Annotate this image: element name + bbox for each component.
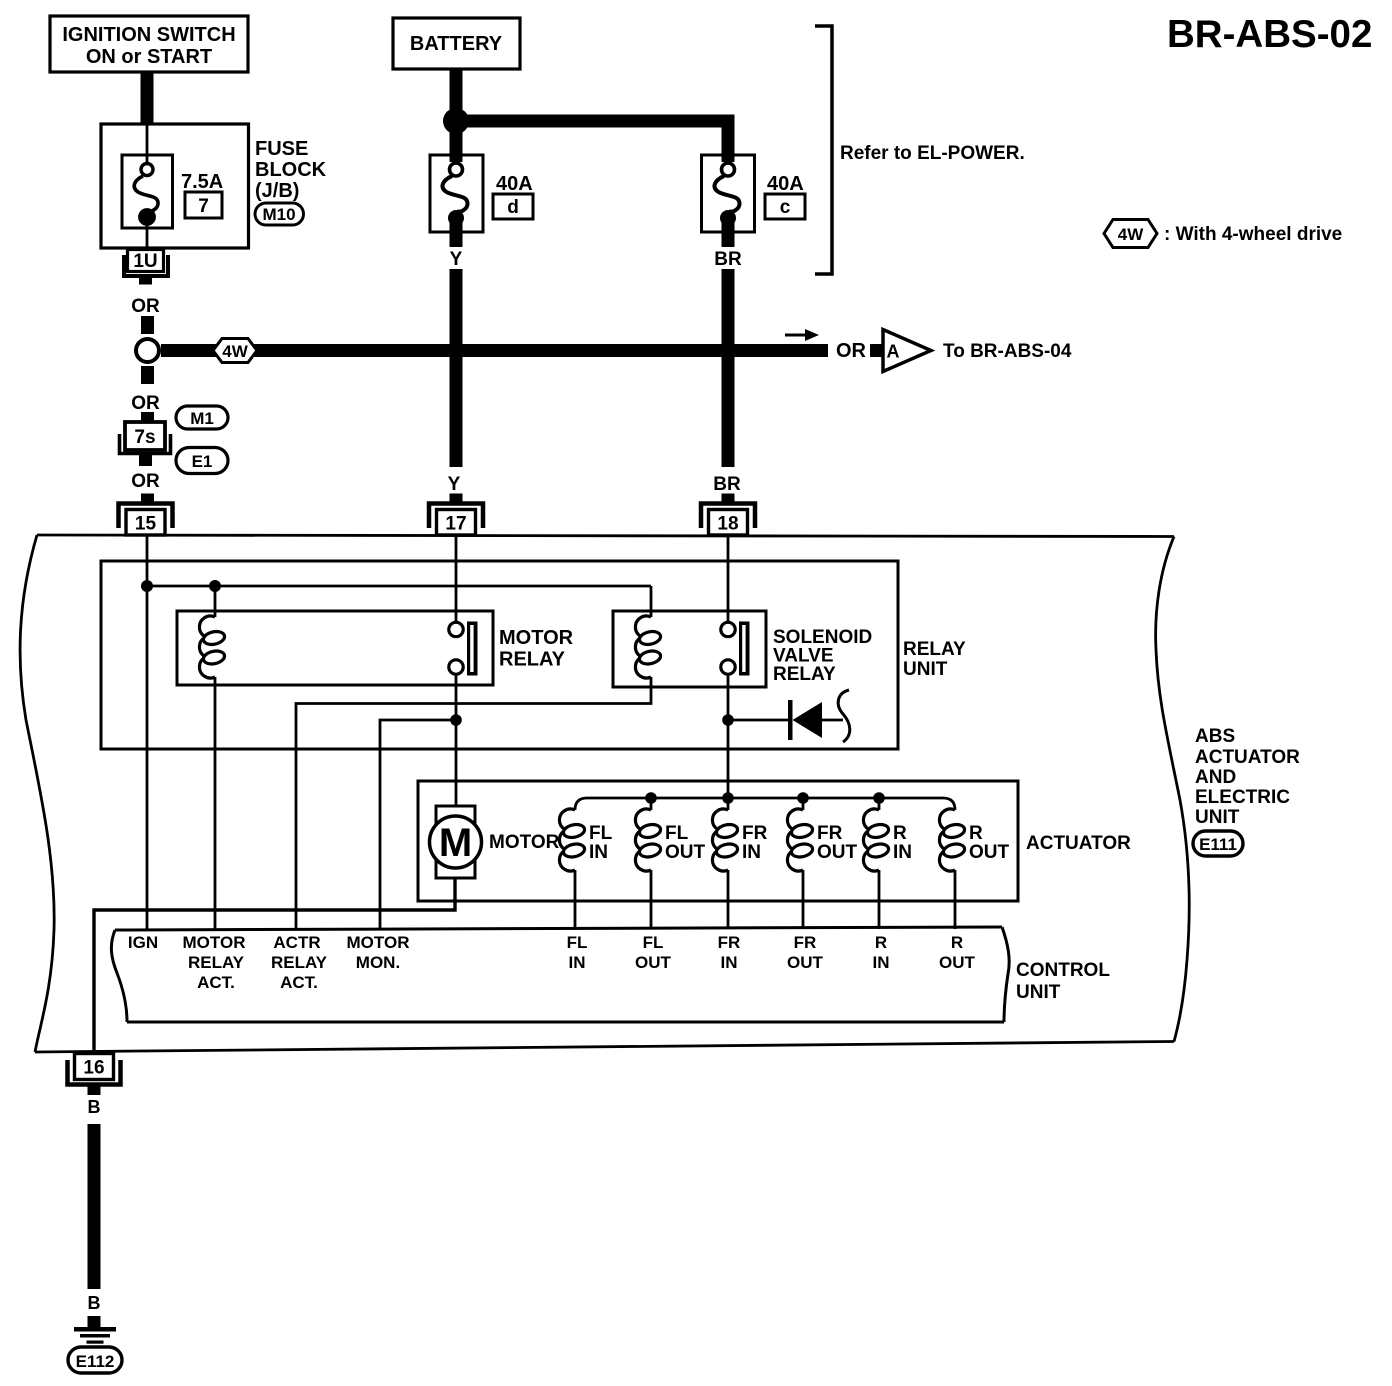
solenoid FR IN xyxy=(712,809,738,871)
legend 4W tag xyxy=(1104,220,1157,248)
svg-text:RELAY: RELAY xyxy=(499,649,566,671)
fuse block J/B box xyxy=(101,124,249,248)
svg-text:ACTUATOR: ACTUATOR xyxy=(1026,833,1131,854)
svg-text:IGN: IGN xyxy=(128,933,158,952)
svg-text:R: R xyxy=(951,933,963,952)
svg-text:Y: Y xyxy=(448,474,461,495)
connector 15 xyxy=(119,504,173,529)
svg-text:UNIT: UNIT xyxy=(903,659,948,680)
svg-text:17: 17 xyxy=(445,514,466,535)
svg-text:RELAY: RELAY xyxy=(903,639,966,660)
svg-text:CONTROL: CONTROL xyxy=(1016,960,1110,981)
wire battery down xyxy=(450,68,463,155)
fuse 40A c xyxy=(702,155,755,247)
svg-text:: With 4-wheel drive: : With 4-wheel drive xyxy=(1164,224,1342,245)
svg-text:FUSE: FUSE xyxy=(255,138,308,160)
svg-text:OUT: OUT xyxy=(969,842,1010,863)
node diode junction xyxy=(722,714,734,726)
node motor junction xyxy=(450,714,462,726)
pin R IN xyxy=(873,933,890,972)
motor relay coil wire xyxy=(214,586,217,617)
svg-text:R: R xyxy=(969,823,983,844)
actuator solenoid bus xyxy=(575,798,955,810)
svg-text:IGNITION SWITCH: IGNITION SWITCH xyxy=(62,24,235,46)
motor relay contact circles xyxy=(449,622,463,636)
connector 16 xyxy=(75,1054,114,1080)
arrow to BR-ABS-04 xyxy=(785,334,805,337)
svg-text:ACT.: ACT. xyxy=(280,973,318,992)
svg-text:BLOCK: BLOCK xyxy=(255,159,327,181)
svg-text:40A: 40A xyxy=(767,173,804,195)
pin FL OUT xyxy=(635,933,672,972)
svg-text:FR: FR xyxy=(718,933,741,952)
svg-text:FR: FR xyxy=(817,823,843,844)
svg-text:ACTUATOR: ACTUATOR xyxy=(1195,747,1300,768)
svg-text:OR: OR xyxy=(131,471,160,492)
svg-text:4W: 4W xyxy=(1118,225,1144,244)
svg-text:15: 15 xyxy=(135,514,157,535)
svg-text:ACT.: ACT. xyxy=(197,973,235,992)
svg-text:4W: 4W xyxy=(222,342,248,361)
svg-text:BR: BR xyxy=(713,474,741,495)
svg-text:MOTOR: MOTOR xyxy=(183,933,246,952)
svg-text:BR-ABS-02: BR-ABS-02 xyxy=(1167,13,1372,56)
pin MOTOR RELAY ACT xyxy=(183,933,246,992)
svg-text:MOTOR: MOTOR xyxy=(489,832,560,853)
node circle xyxy=(136,339,159,362)
svg-text:M1: M1 xyxy=(190,409,214,428)
svg-text:AND: AND xyxy=(1195,767,1236,788)
ground xyxy=(74,1327,116,1332)
pin ACTR RELAY ACT xyxy=(271,933,328,992)
svg-text:IN: IN xyxy=(589,842,608,863)
connector E1 xyxy=(176,448,228,474)
fuse 7.5A symbol xyxy=(122,124,173,250)
4W tag xyxy=(213,339,257,363)
solenoid relay contact bar xyxy=(739,622,750,676)
connector 7s xyxy=(141,412,154,422)
solenoid FR OUT xyxy=(787,809,813,871)
wire ignition to fuse block xyxy=(141,72,154,124)
pin MOTOR MON xyxy=(347,933,410,972)
svg-text:Y: Y xyxy=(450,249,463,270)
ABS actuator and electric unit outline xyxy=(20,535,1189,1052)
wire BR xyxy=(722,231,735,247)
svg-text:UNIT: UNIT xyxy=(1016,982,1061,1003)
svg-text:FR: FR xyxy=(742,823,768,844)
svg-text:ELECTRIC: ELECTRIC xyxy=(1195,787,1290,808)
svg-text:IN: IN xyxy=(742,842,761,863)
wire 18 to solenoid relay contact xyxy=(727,535,730,622)
solenoid FL IN xyxy=(559,809,585,871)
svg-text:7.5A: 7.5A xyxy=(181,171,223,193)
connector 18 xyxy=(701,504,755,529)
svg-text:FR: FR xyxy=(794,933,817,952)
svg-text:MOTOR: MOTOR xyxy=(347,933,410,952)
wire junction bus y586 xyxy=(147,585,651,588)
wire solenoid contact down to actuator xyxy=(727,675,730,799)
svg-text:MOTOR: MOTOR xyxy=(499,627,574,649)
svg-text:c: c xyxy=(780,197,791,218)
svg-text:B: B xyxy=(88,1097,101,1117)
svg-text:OUT: OUT xyxy=(787,953,824,972)
svg-text:ABS: ABS xyxy=(1195,726,1235,747)
motor relay contact bar xyxy=(467,622,478,676)
node dot1 xyxy=(141,580,153,592)
motor M1 xyxy=(436,806,475,878)
svg-text:IN: IN xyxy=(873,953,890,972)
bus nodes xyxy=(645,792,657,804)
svg-text:OR: OR xyxy=(836,340,867,362)
solenoid FL OUT xyxy=(635,809,661,871)
motor relay box xyxy=(177,611,493,685)
svg-text:R: R xyxy=(875,933,887,952)
svg-text:FL: FL xyxy=(589,823,613,844)
bracket refer to EL-POWER xyxy=(815,26,832,274)
relay unit box xyxy=(101,561,898,749)
connector M1 xyxy=(176,406,228,429)
svg-text:d: d xyxy=(507,197,519,218)
svg-text:FL: FL xyxy=(665,823,689,844)
svg-text:UNIT: UNIT xyxy=(1195,807,1240,828)
junction node battery xyxy=(443,108,469,134)
svg-text:IN: IN xyxy=(721,953,738,972)
pin FL IN xyxy=(567,933,588,972)
node dot2 xyxy=(209,580,221,592)
solenoid R IN xyxy=(863,809,889,871)
svg-text:ON or START: ON or START xyxy=(86,46,212,68)
svg-text:MON.: MON. xyxy=(356,953,400,972)
svg-text:Refer to EL-POWER.: Refer to EL-POWER. xyxy=(840,143,1025,164)
svg-text:OUT: OUT xyxy=(665,842,706,863)
svg-text:RELAY: RELAY xyxy=(188,953,245,972)
pin R OUT xyxy=(939,933,976,972)
svg-text:B: B xyxy=(88,1293,101,1313)
diode D1 xyxy=(728,719,788,722)
svg-text:IN: IN xyxy=(893,842,912,863)
svg-text:1U: 1U xyxy=(133,251,157,272)
solenoid relay contact circles xyxy=(721,622,735,636)
battery box xyxy=(393,18,520,69)
svg-text:M: M xyxy=(439,821,472,865)
solenoid R OUT xyxy=(939,809,965,871)
svg-text:E112: E112 xyxy=(76,1352,115,1371)
svg-text:OR: OR xyxy=(131,393,160,414)
svg-text:7: 7 xyxy=(198,196,209,217)
ignition switch box xyxy=(50,16,248,72)
svg-text:BATTERY: BATTERY xyxy=(410,33,503,55)
svg-text:BR: BR xyxy=(714,249,742,270)
fuse number 7 box xyxy=(185,192,222,218)
svg-text:RELAY: RELAY xyxy=(773,664,836,685)
svg-text:(J/B): (J/B) xyxy=(255,180,299,202)
wire motor to ground path xyxy=(94,878,455,1054)
wire OR dashed 2 xyxy=(141,366,154,384)
svg-text:OUT: OUT xyxy=(817,842,858,863)
solenoid valve relay box xyxy=(613,611,766,687)
svg-text:M10: M10 xyxy=(262,205,295,224)
svg-text:OUT: OUT xyxy=(635,953,672,972)
connector E112 xyxy=(68,1347,122,1373)
label ABS actuator and electric unit xyxy=(1195,726,1300,828)
wire IGN from connector 15 to control unit xyxy=(146,535,149,929)
connector E111 xyxy=(1193,831,1243,856)
solenoid valve relay coil xyxy=(635,616,661,678)
wire motor relay contact down xyxy=(455,675,458,721)
svg-text:7s: 7s xyxy=(134,427,155,448)
svg-text:16: 16 xyxy=(83,1058,104,1079)
pin FR OUT xyxy=(787,933,824,972)
svg-text:RELAY: RELAY xyxy=(271,953,328,972)
svg-text:OR: OR xyxy=(131,296,160,317)
connector 17 xyxy=(429,504,483,529)
svg-text:FL: FL xyxy=(643,933,664,952)
svg-text:ACTR: ACTR xyxy=(273,933,320,952)
control unit strip xyxy=(111,927,1009,1022)
wire MOTOR MON branch xyxy=(380,720,456,929)
wire coil to MOTOR RELAY ACT pin xyxy=(214,677,217,929)
fuse 40A d xyxy=(430,155,483,247)
svg-text:E111: E111 xyxy=(1199,835,1237,854)
wire battery to fuse c xyxy=(456,115,735,128)
connector 1U xyxy=(128,250,164,272)
actuator box xyxy=(418,781,1018,901)
svg-text:R: R xyxy=(893,823,907,844)
pin FR IN xyxy=(718,933,741,972)
svg-text:A: A xyxy=(887,342,900,362)
wire junction to motor xyxy=(455,720,458,806)
svg-text:40A: 40A xyxy=(496,173,533,195)
motor relay coil xyxy=(199,616,225,678)
wire 17 to motor relay contact xyxy=(455,535,458,622)
svg-text:To BR-ABS-04: To BR-ABS-04 xyxy=(943,341,1072,362)
svg-text:IN: IN xyxy=(569,953,586,972)
svg-text:OUT: OUT xyxy=(939,953,976,972)
svg-text:FL: FL xyxy=(567,933,588,952)
connector M10 xyxy=(255,203,304,225)
svg-text:18: 18 xyxy=(717,514,738,535)
wire 4W horizontal xyxy=(161,344,828,357)
wire Y xyxy=(450,231,463,247)
svg-text:E1: E1 xyxy=(192,452,213,471)
wire solenoid coil branch xyxy=(296,586,651,929)
